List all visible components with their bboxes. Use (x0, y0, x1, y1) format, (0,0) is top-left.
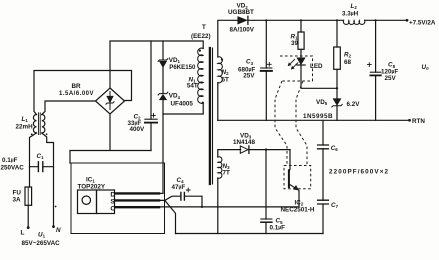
svg-text:25V: 25V (385, 75, 397, 82)
capacitor C2 33uF 400V bulk (150, 41, 152, 151)
diode VD4 UF4005 (160, 95, 167, 100)
svg-text:1N4148: 1N4148 (233, 139, 256, 146)
wire AC2: choke right top to bridge left vertex (42, 101, 96, 115)
wire clamp column from top rail (162, 41, 164, 114)
node +7.5V output (406, 19, 409, 22)
phototransistor body bar (288, 170, 290, 187)
svg-text:3.3µH: 3.3µH (342, 10, 359, 17)
wire C1 junction up to choke left winding (30, 133, 37, 167)
phase dot secondary (221, 59, 223, 61)
phase mark near N wire (55, 206, 57, 208)
wire LED cathode to zener column (301, 65, 337, 88)
capacitor C5 0.1uF (265, 150, 267, 234)
svg-text:68: 68 (344, 59, 352, 66)
node L (AC live terminal) (27, 226, 30, 229)
svg-text:C: C (110, 205, 115, 212)
LED of optocoupler (297, 58, 305, 65)
capacitor C3 680uF 25V (265, 20, 267, 120)
svg-text:LED: LED (310, 63, 323, 70)
inductor L1 core (39, 113, 41, 135)
resistor R1 39 (300, 20, 302, 57)
transformer secondary winding N2 5T (218, 57, 223, 83)
svg-text:39: 39 (291, 40, 299, 47)
wire AC1: choke left top to bridge right vertex (crosses DC+ drop) (34, 71, 132, 115)
wire RTN rail (218, 119, 410, 121)
svg-text:6.2V: 6.2V (347, 101, 361, 108)
svg-text:RTN: RTN (412, 118, 425, 125)
wire fuse to C1 junction (29, 167, 31, 187)
optocoupler phototransistor collector (289, 150, 290, 172)
wire DC- : bridge bottom down, horizontal to C2 and to IC box (70, 114, 151, 163)
svg-text:7T: 7T (223, 170, 231, 177)
optocoupler dashed LED enclosure (280, 56, 313, 81)
svg-text:400V: 400V (130, 126, 146, 133)
transformer T primary winding N1 54T (198, 48, 203, 103)
phase dots of choke (31, 133, 33, 135)
capacitor C6 2200pF Y-cap upper (322, 120, 324, 200)
svg-text:54T: 54T (187, 82, 198, 89)
transformer core EE22 (209, 48, 211, 184)
capacitor C4 47uF control (181, 192, 185, 200)
resistor R2 68 (336, 20, 338, 98)
TOP202Y package body (97, 190, 115, 214)
wire secondary top to rail (218, 20, 238, 57)
pin leads D S C (116, 193, 159, 207)
optocoupler IC2 dashed outline (275, 56, 313, 189)
diode VD3 1N4148 (240, 146, 248, 153)
optocoupler dashed left connector (275, 81, 287, 166)
svg-text:5T: 5T (222, 76, 230, 83)
capacitor C1 0.1uF 250VAC (X-cap) (30, 166, 54, 168)
svg-text:25V: 25V (243, 73, 255, 80)
svg-text:N: N (56, 227, 61, 234)
capacitor C7 2200pF Y-cap lower (318, 200, 329, 204)
svg-text:85V~265VAC: 85V~265VAC (22, 240, 61, 247)
wire N terminal up to choke right winding (42, 133, 54, 227)
wire D pin to drain (159, 192, 163, 194)
svg-text:P6KE150: P6KE150 (169, 64, 196, 71)
svg-text:BR: BR (72, 83, 82, 90)
bridge internal diode (109, 92, 111, 110)
wire secondary top rail after VD2 (248, 19, 407, 21)
wire VD3 cathode to C5 and opto collector (249, 149, 290, 151)
diode VD2 UGB8BT 8A/100V (238, 17, 247, 24)
svg-text:47µF: 47µF (172, 184, 186, 191)
optocoupler dashed right connector (296, 81, 307, 165)
wire C (control) rail from IC to opto emitter (159, 206, 299, 208)
phototransistor emitter with arrow (289, 184, 299, 207)
svg-text:TOP202Y: TOP202Y (78, 183, 106, 190)
zener diode VD5 1N5995B 6.2V (333, 99, 341, 106)
svg-text:(EE22): (EE22) (191, 33, 211, 40)
svg-text:L: L (21, 230, 25, 237)
svg-text:D: D (110, 191, 115, 198)
svg-text:22mH: 22mH (16, 124, 34, 131)
inductor L2 3.3uH (343, 20, 365, 24)
phase dot primary (199, 50, 201, 52)
svg-text:1N5995B: 1N5995B (303, 113, 333, 120)
IC1 TOP202Y outer box (71, 163, 165, 234)
node RTN (408, 119, 411, 122)
inductor L1 22mH common-mode choke left winding (33, 115, 36, 133)
svg-text:+7.5V/2A: +7.5V/2A (409, 19, 436, 26)
TOP202Y package tab with hole (78, 190, 97, 214)
wire drain node: clamp bottom to primary bottom and down to D pin (163, 103, 203, 193)
wire source bottom rail (176, 233, 324, 235)
junction primary bottom (202, 102, 204, 104)
wire L terminal to fuse (27, 205, 29, 227)
svg-text:UF4005: UF4005 (171, 100, 194, 107)
wire secondary bottom to RTN rail (217, 83, 219, 121)
svg-text:NEC2501-H: NEC2501-H (281, 207, 315, 214)
svg-text:0.1µF: 0.1µF (270, 224, 286, 231)
node N (AC neutral terminal) (52, 225, 55, 228)
transformer bias winding N3 7T (218, 157, 222, 179)
TVS diode VD1 P6KE150 (160, 61, 167, 67)
svg-text:T: T (202, 24, 206, 31)
svg-text:0.1µF: 0.1µF (2, 157, 18, 164)
bridge rectifier BR diamond (96, 88, 125, 114)
wire DC+ : bridge top to top rail to transformer primary top (110, 41, 203, 88)
svg-text:250VAC: 250VAC (1, 165, 25, 172)
svg-text:UGB8BT: UGB8BT (228, 9, 254, 16)
svg-text:8A/100V: 8A/100V (230, 27, 255, 34)
LED emission arrows (289, 59, 298, 68)
svg-text:FU: FU (13, 190, 22, 197)
svg-text:2200PF/600V×2: 2200PF/600V×2 (329, 169, 388, 176)
svg-text:3A: 3A (13, 197, 22, 204)
svg-text:1.5A/6.00V: 1.5A/6.00V (59, 91, 94, 97)
wire bias winding bottom to source rail (217, 178, 219, 234)
fuse FU 3A (25, 187, 32, 205)
inductor L1 right winding (42, 115, 45, 133)
wire bias winding top to diode VD3 (218, 150, 241, 157)
capacitor C8 120uF 25V output (375, 20, 377, 120)
junction bias node (265, 148, 267, 150)
wire S pin split: up to C4 cap, down to source rail (159, 196, 181, 233)
optocoupler dashed transistor box (284, 166, 311, 189)
